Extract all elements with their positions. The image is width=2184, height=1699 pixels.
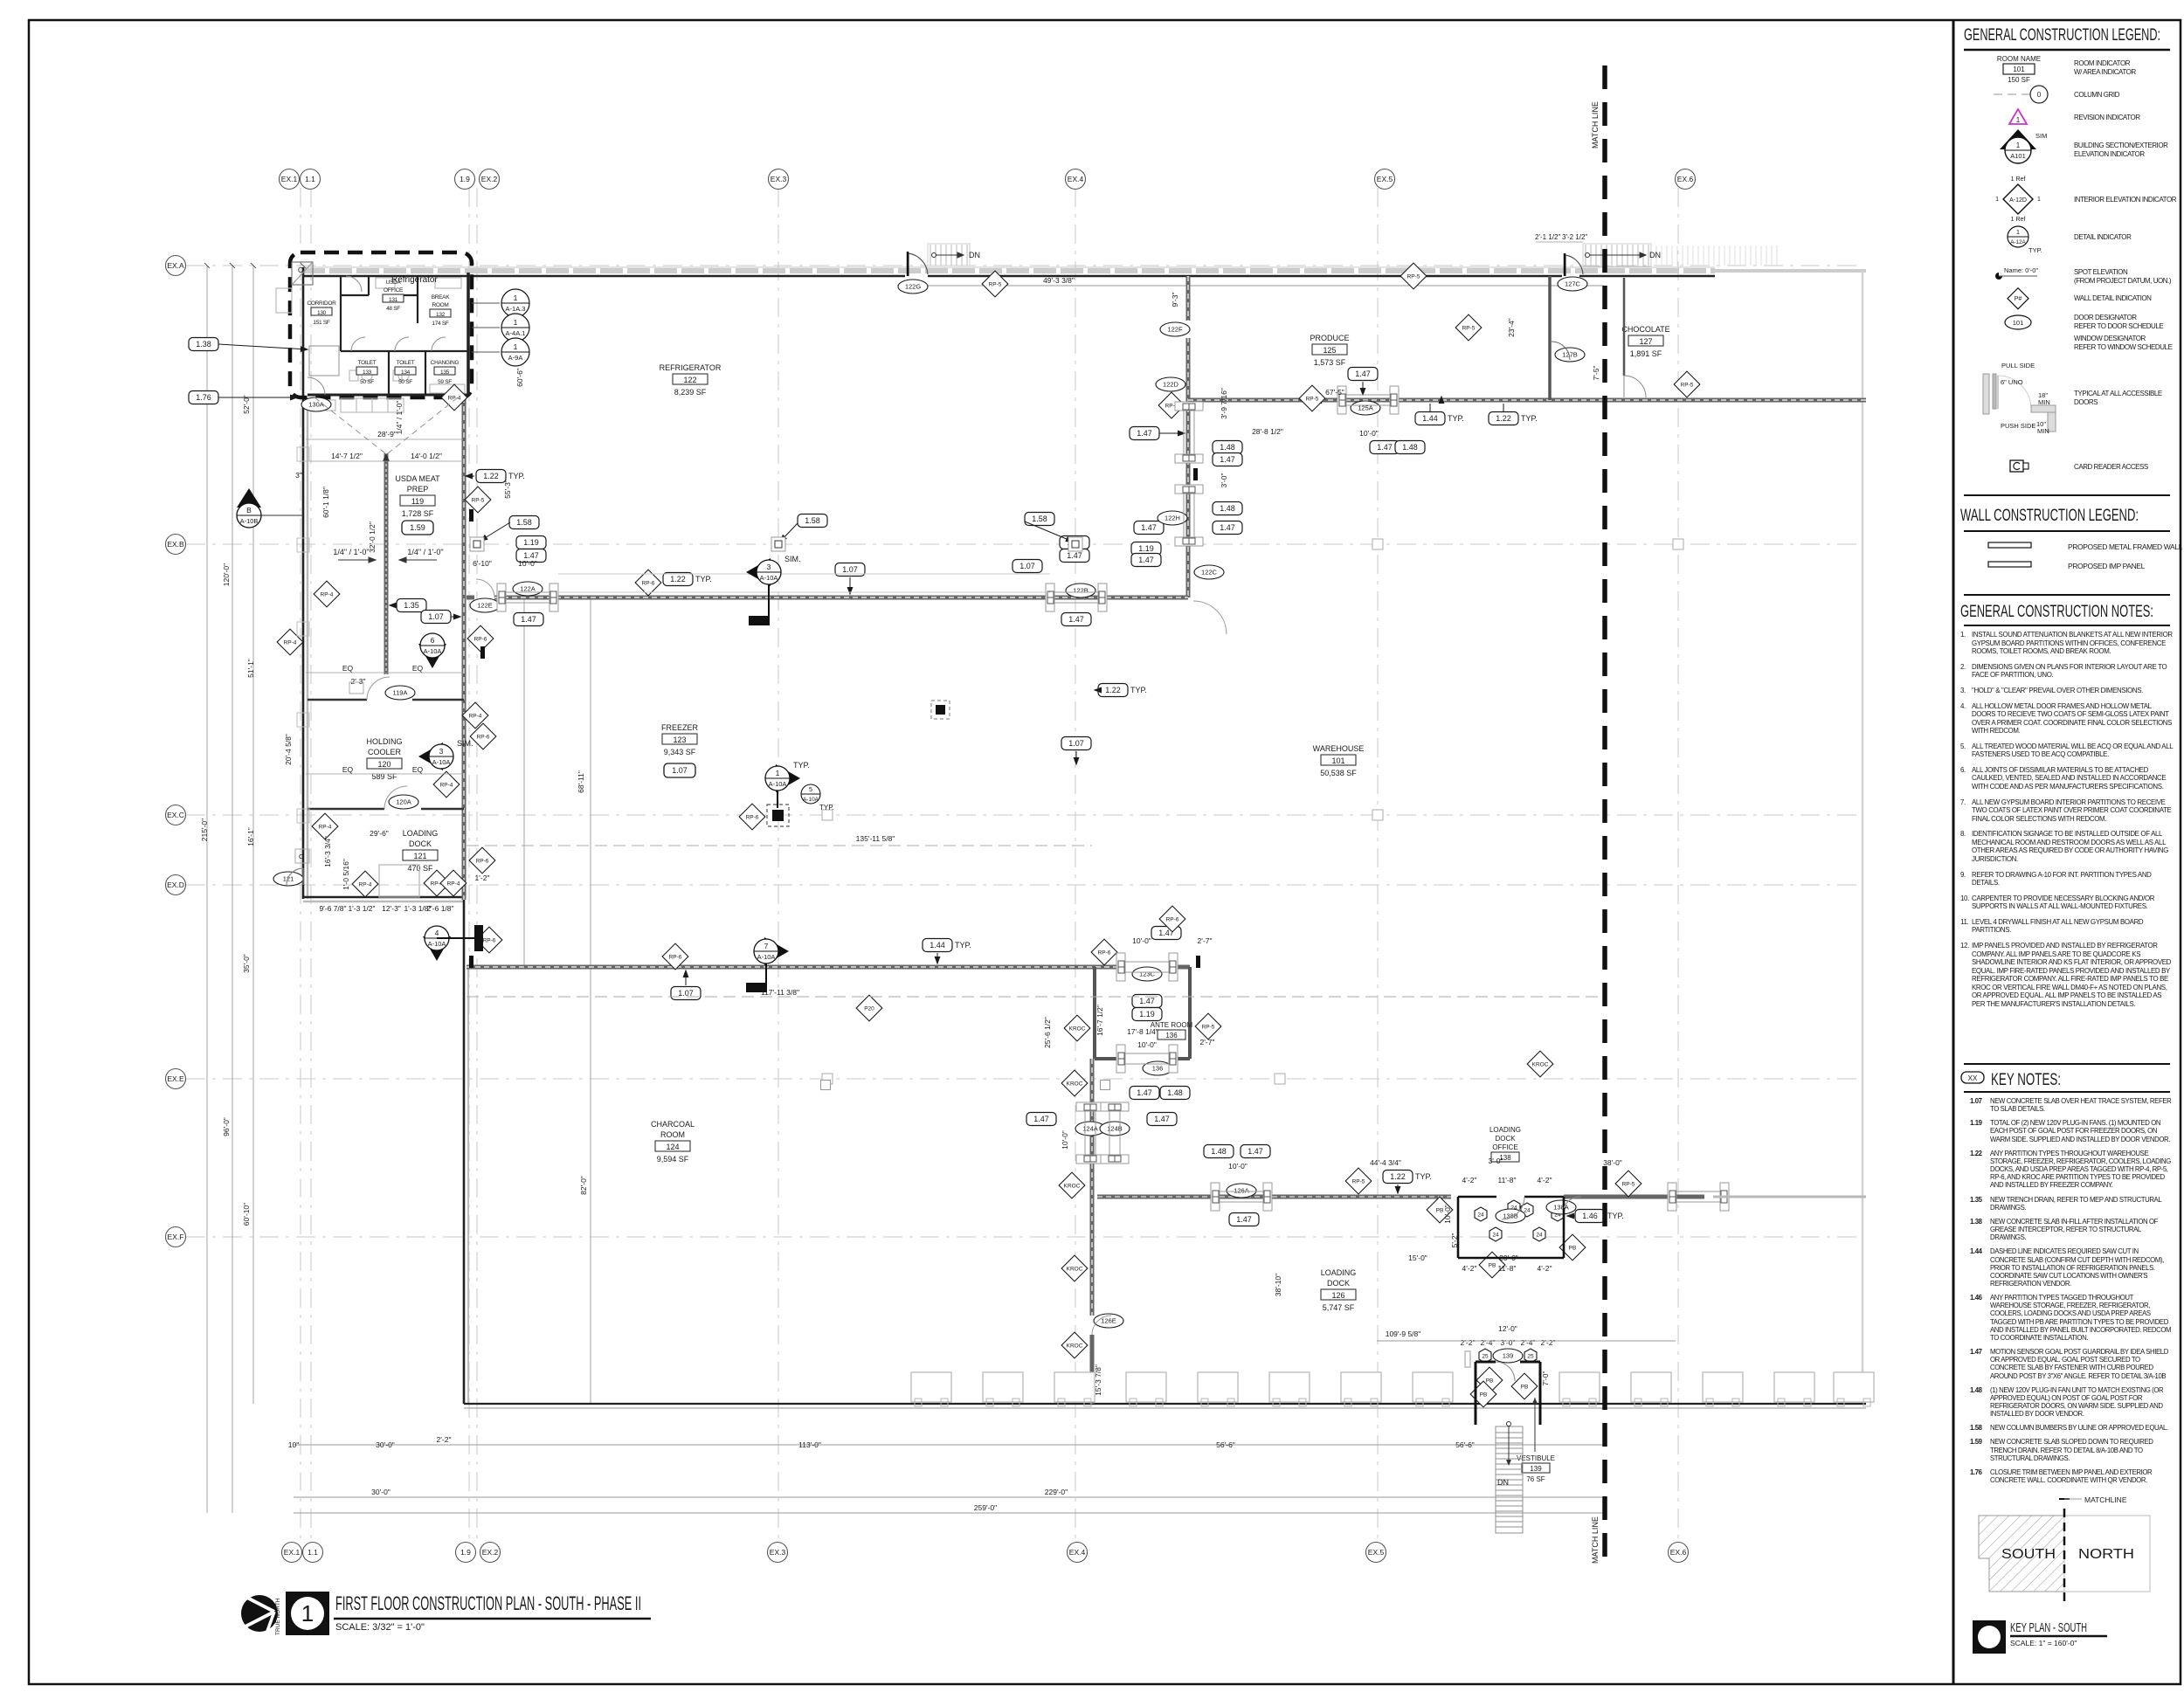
svg-text:RP-6: RP-6	[1166, 916, 1179, 922]
svg-text:PUSH SIDE: PUSH SIDE	[2001, 422, 2035, 430]
title viewport number	[286, 1592, 329, 1635]
svg-text:30'-0": 30'-0"	[376, 1440, 395, 1449]
svg-text:589 SF: 589 SF	[371, 772, 397, 781]
svg-text:1.19: 1.19	[1139, 1010, 1155, 1019]
svg-text:EX.1: EX.1	[284, 1548, 301, 1557]
svg-text:52'-0": 52'-0"	[242, 395, 251, 414]
svg-text:MATCHLINE: MATCHLINE	[2084, 1495, 2127, 1504]
svg-text:125: 125	[1323, 346, 1336, 355]
svg-text:136: 136	[1152, 1065, 1164, 1073]
svg-text:1.07: 1.07	[672, 766, 688, 775]
room charcoal 124	[651, 1120, 695, 1164]
svg-text:122A: 122A	[520, 585, 536, 593]
svg-text:1.07: 1.07	[1019, 562, 1035, 570]
svg-text:1: 1	[514, 294, 518, 302]
svg-text:ROOM INDICATOR: ROOM INDICATOR	[2074, 59, 2131, 67]
svg-text:38'-10": 38'-10"	[1274, 1274, 1282, 1296]
svg-text:1: 1	[514, 318, 518, 327]
key plan matchline	[2063, 1509, 2066, 1605]
svg-text:KROC: KROC	[1532, 1061, 1549, 1067]
svg-text:127C: 127C	[1565, 280, 1581, 288]
svg-text:96'-0": 96'-0"	[222, 1117, 231, 1136]
svg-text:17'-8 1/4": 17'-8 1/4"	[1127, 1027, 1158, 1036]
svg-text:ROOM: ROOM	[432, 302, 448, 308]
svg-text:1.48: 1.48	[1220, 443, 1235, 452]
svg-text:49'-3 3/8": 49'-3 3/8"	[1043, 276, 1075, 285]
key plan north shape	[2064, 1516, 2150, 1592]
svg-text:PULL SIDE: PULL SIDE	[2001, 362, 2035, 369]
horizontal grid EX.A	[186, 265, 1861, 266]
svg-text:6'-10": 6'-10"	[473, 559, 492, 568]
room loading dock 126	[1321, 1268, 1357, 1312]
left exterior wall upper (office to loading dock)	[303, 267, 308, 899]
svg-text:EX.E: EX.E	[167, 1074, 184, 1083]
svg-text:1.48: 1.48	[1220, 504, 1235, 513]
left exterior wall lower (charcoal room)	[463, 897, 466, 1404]
svg-text:TOILET: TOILET	[358, 360, 377, 366]
svg-text:1.58: 1.58	[1032, 515, 1047, 523]
office fixtures	[309, 278, 465, 393]
svg-text:EX.D: EX.D	[167, 881, 184, 889]
room toilet 133	[356, 360, 377, 385]
vertical IMP wall x=531 (meat prep / refrigerator divider)	[462, 397, 467, 900]
svg-text:MIN: MIN	[2037, 427, 2049, 435]
door 127C	[1565, 255, 1583, 276]
door 122C arc	[1193, 601, 1227, 634]
interior elevation indicators	[472, 289, 529, 317]
svg-text:SIM: SIM	[2035, 132, 2047, 140]
wall construction legend	[1964, 494, 2170, 496]
svg-text:1.47: 1.47	[1033, 1115, 1049, 1123]
svg-text:CORRIDOR: CORRIDOR	[308, 300, 337, 307]
svg-text:55'-3": 55'-3"	[503, 480, 512, 499]
svg-text:A-4A.1: A-4A.1	[506, 329, 526, 337]
svg-text:EX.1: EX.1	[281, 175, 298, 183]
vertical dim x=676 (68'-11 / 82'-0)	[590, 597, 591, 1404]
svg-text:GENERAL CONSTRUCTION LEGEND:: GENERAL CONSTRUCTION LEGEND:	[1964, 26, 2160, 45]
svg-text:4: 4	[435, 929, 439, 937]
faded top wall continuation to north	[1715, 269, 1866, 273]
svg-text:6: 6	[431, 636, 435, 645]
svg-text:A-10A: A-10A	[757, 953, 776, 961]
svg-text:121: 121	[413, 852, 426, 860]
svg-text:A-12D: A-12D	[2009, 197, 2027, 204]
svg-text:10'-0": 10'-0"	[1228, 1162, 1248, 1171]
svg-text:29'-6": 29'-6"	[370, 829, 389, 838]
svg-text:44'-4 3/4": 44'-4 3/4"	[1370, 1158, 1401, 1167]
svg-text:A-1A.3: A-1A.3	[506, 305, 526, 313]
svg-text:9,594 SF: 9,594 SF	[657, 1155, 689, 1164]
refrigerator / freezer divider wall y=684	[467, 596, 1188, 600]
column bumper targets	[470, 537, 484, 551]
svg-text:1.47: 1.47	[1377, 443, 1393, 452]
svg-text:119A: 119A	[393, 689, 408, 697]
svg-text:LOADING: LOADING	[403, 829, 439, 838]
svg-text:(FROM PROJECT DATUM, UON.): (FROM PROJECT DATUM, UON.)	[2074, 277, 2172, 285]
svg-text:48 SF: 48 SF	[386, 306, 400, 312]
svg-text:1'-0 5/16": 1'-0 5/16"	[342, 859, 350, 890]
svg-text:COOLER: COOLER	[368, 748, 402, 756]
legend symbol: card reader	[2010, 460, 2028, 472]
svg-text:120A: 120A	[396, 798, 411, 806]
freezer / charcoal divider wall y=1107	[467, 965, 1190, 970]
svg-text:1.47: 1.47	[1236, 1215, 1252, 1224]
toilets top wall	[341, 350, 468, 352]
vertical grid EX.3	[778, 188, 779, 1543]
svg-text:1.47: 1.47	[1220, 523, 1235, 532]
wall type diamonds	[277, 263, 1700, 1407]
svg-text:135'-11 5/8": 135'-11 5/8"	[856, 834, 895, 843]
meat prep slope diagonals	[314, 397, 458, 453]
svg-text:122C: 122C	[1201, 569, 1218, 577]
svg-text:REVISION INDICATOR: REVISION INDICATOR	[2074, 114, 2140, 121]
svg-text:PB: PB	[1569, 1245, 1577, 1251]
svg-text:6" UNO: 6" UNO	[2001, 378, 2023, 386]
svg-text:1: 1	[2037, 197, 2041, 203]
svg-text:C: C	[299, 854, 303, 860]
svg-text:16'-1": 16'-1"	[246, 827, 255, 846]
dock levelers along south wall	[911, 1372, 951, 1406]
svg-text:LOADING: LOADING	[1489, 1126, 1521, 1134]
svg-text:7: 7	[764, 942, 769, 950]
svg-text:50 SF: 50 SF	[360, 379, 374, 385]
room holding cooler 120	[366, 737, 402, 781]
svg-text:1.46: 1.46	[1582, 1212, 1598, 1220]
svg-text:133: 133	[363, 369, 372, 376]
legend symbol: door designator	[2005, 315, 2031, 329]
svg-text:PROPOSED METAL FRAMED WALL: PROPOSED METAL FRAMED WALL	[2068, 542, 2183, 551]
ante room left wall x=1253	[1093, 967, 1096, 1059]
svg-text:RP-5: RP-5	[1202, 1024, 1215, 1030]
svg-text:1.58: 1.58	[516, 518, 532, 527]
svg-text:RP-5: RP-5	[1306, 396, 1319, 402]
svg-text:XX: XX	[1968, 1074, 1978, 1082]
svg-text:USDA MEAT: USDA MEAT	[395, 474, 440, 483]
svg-text:15'-3 7/8": 15'-3 7/8"	[1094, 1364, 1102, 1396]
svg-text:CHARCOAL: CHARCOAL	[651, 1120, 695, 1129]
legend symbol: room indicator	[1997, 55, 2041, 84]
svg-text:1.19: 1.19	[1138, 544, 1154, 553]
room chocolate 127	[1621, 325, 1669, 358]
svg-text:1.07: 1.07	[428, 612, 444, 621]
svg-text:ROOM NAME: ROOM NAME	[1997, 55, 2041, 63]
svg-text:12'-3": 12'-3"	[382, 904, 401, 913]
svg-text:56'-6": 56'-6"	[1216, 1440, 1235, 1449]
toilet divider walls	[388, 351, 390, 395]
vertical grid EX.5	[1377, 188, 1379, 1543]
svg-text:1.35: 1.35	[404, 601, 419, 610]
office 131 walls	[341, 294, 369, 296]
svg-text:2'-7": 2'-7"	[1200, 1038, 1215, 1046]
svg-text:TYP.: TYP.	[793, 761, 810, 770]
svg-text:139: 139	[1530, 1465, 1542, 1473]
svg-text:56'-6": 56'-6"	[1455, 1440, 1475, 1449]
svg-text:RP-6: RP-6	[474, 636, 487, 642]
svg-text:9,343 SF: 9,343 SF	[664, 748, 696, 756]
svg-text:REFER TO DOOR SCHEDULE: REFER TO DOOR SCHEDULE	[2074, 322, 2163, 330]
svg-text:1: 1	[1995, 197, 1999, 203]
svg-text:TYPICAL AT ALL ACCESSIBLE: TYPICAL AT ALL ACCESSIBLE	[2074, 390, 2162, 397]
svg-text:120'-0": 120'-0"	[222, 563, 231, 586]
svg-text:119: 119	[411, 497, 424, 506]
svg-text:4'-2": 4'-2"	[1538, 1264, 1552, 1273]
svg-text:16'-7 1/2": 16'-7 1/2"	[1095, 1005, 1104, 1036]
svg-text:DN: DN	[1497, 1478, 1509, 1487]
svg-text:1,728 SF: 1,728 SF	[402, 509, 434, 518]
vertical IMP wall x=1359 (refrigerator / produce divider)	[1186, 276, 1191, 597]
svg-text:132: 132	[436, 312, 446, 318]
svg-text:10'-0": 10'-0"	[518, 559, 537, 568]
svg-text:1 Ref: 1 Ref	[2011, 217, 2026, 223]
svg-text:1.47: 1.47	[1138, 556, 1154, 564]
wall legend symbol: metal framed wall	[1988, 542, 2031, 548]
horizontal grid EX.F	[186, 1236, 1861, 1238]
loading dock bottom jog wall	[303, 896, 464, 899]
column wraps on left wall	[297, 447, 309, 823]
svg-text:KEY NOTES:: KEY NOTES:	[1991, 1071, 2061, 1089]
svg-text:A-10A: A-10A	[424, 647, 442, 655]
svg-text:RP-5: RP-5	[1407, 273, 1420, 280]
svg-text:1'-3 1/2": 1'-3 1/2"	[348, 904, 375, 913]
svg-text:28'-9": 28'-9"	[377, 430, 397, 439]
saw cut lines	[467, 845, 1092, 846]
svg-text:11'-8": 11'-8"	[1497, 1176, 1516, 1184]
svg-text:1.22: 1.22	[670, 575, 686, 584]
svg-text:DN: DN	[1649, 251, 1661, 259]
svg-text:30'-0": 30'-0"	[371, 1488, 390, 1496]
svg-text:1: 1	[2016, 228, 2020, 236]
svg-text:139: 139	[1503, 1352, 1514, 1360]
svg-text:174 SF: 174 SF	[432, 321, 448, 327]
key notes header	[1964, 1063, 2170, 1065]
small fixture holding cooler	[349, 682, 363, 694]
svg-text:2'-4": 2'-4"	[1521, 1338, 1536, 1347]
svg-text:1.76: 1.76	[196, 393, 211, 402]
lockers row under office	[325, 398, 404, 412]
svg-text:229'-0": 229'-0"	[1045, 1488, 1068, 1496]
svg-text:OFFICE: OFFICE	[384, 287, 404, 294]
vertical grid 1.9	[468, 188, 470, 1543]
stair below vestibule	[1496, 1422, 1523, 1534]
stair top-right	[1583, 244, 1651, 266]
svg-text:76 SF: 76 SF	[1526, 1475, 1545, 1483]
svg-text:2'-1 1/2": 2'-1 1/2"	[1535, 233, 1560, 241]
svg-text:5'-2": 5'-2"	[1450, 1233, 1459, 1248]
svg-text:67'-5": 67'-5"	[1325, 388, 1344, 397]
svg-text:PROPOSED IMP PANEL: PROPOSED IMP PANEL	[2068, 562, 2146, 570]
svg-text:EX.2: EX.2	[481, 175, 498, 183]
svg-text:LOADING: LOADING	[1321, 1268, 1357, 1277]
svg-text:HOLDING: HOLDING	[366, 737, 402, 746]
svg-text:EX.6: EX.6	[1677, 175, 1694, 183]
svg-text:1.22: 1.22	[1105, 686, 1121, 694]
svg-text:RP-5: RP-5	[989, 281, 1002, 287]
key notes text	[1970, 1097, 2174, 1490]
loading dock 126 top wall y=1370	[1097, 1195, 1704, 1199]
svg-text:SPOT ELEVATION: SPOT ELEVATION	[2074, 268, 2128, 276]
svg-text:2'-2": 2'-2"	[437, 1435, 452, 1444]
svg-text:4'-2": 4'-2"	[1538, 1176, 1552, 1184]
svg-text:1.38: 1.38	[196, 340, 211, 349]
svg-text:A-10A: A-10A	[803, 797, 819, 803]
svg-text:CHANGING: CHANGING	[431, 360, 460, 366]
svg-text:0: 0	[2037, 91, 2042, 99]
office block right wall	[467, 273, 470, 395]
svg-text:60'-1 1/8": 60'-1 1/8"	[321, 487, 330, 518]
svg-text:2'-2": 2'-2"	[1541, 1338, 1556, 1347]
svg-text:EX.3: EX.3	[770, 1548, 786, 1557]
svg-text:10'-0": 10'-0"	[1061, 1130, 1069, 1150]
svg-text:1.47: 1.47	[521, 615, 536, 624]
svg-text:1.19: 1.19	[523, 538, 539, 547]
svg-text:RP-5: RP-5	[1622, 1181, 1635, 1187]
svg-text:109'-9 5/8": 109'-9 5/8"	[1386, 1330, 1421, 1338]
svg-text:1: 1	[776, 769, 780, 777]
svg-text:COLUMN GRID: COLUMN GRID	[2074, 91, 2120, 99]
svg-text:10'-0": 10'-0"	[1137, 1040, 1157, 1049]
door tag ovals	[273, 277, 1587, 1363]
general construction notes header	[1964, 594, 2170, 596]
svg-text:A-9A: A-9A	[508, 354, 523, 362]
section markers	[746, 555, 801, 586]
svg-text:WALL CONSTRUCTION LEGEND:: WALL CONSTRUCTION LEGEND:	[1960, 507, 2139, 525]
keynote boxes	[189, 338, 1624, 1226]
svg-text:RP-6: RP-6	[746, 814, 759, 820]
svg-text:10": 10"	[288, 1440, 299, 1449]
legend symbol: detail indicator	[2008, 226, 2042, 254]
svg-text:1.47: 1.47	[1139, 997, 1155, 1005]
svg-text:RP-4: RP-4	[440, 782, 453, 788]
svg-text:122H: 122H	[1165, 515, 1180, 522]
vertical grid EX.2	[476, 188, 478, 1543]
svg-text:TYP.: TYP.	[819, 804, 834, 812]
svg-text:24: 24	[1524, 1208, 1531, 1214]
legend symbol: spot elevation	[1995, 266, 2038, 280]
svg-text:1: 1	[2016, 142, 2021, 149]
svg-text:TYP.: TYP.	[1415, 1172, 1432, 1181]
svg-text:1.48: 1.48	[1402, 443, 1418, 452]
svg-text:1.48: 1.48	[1211, 1147, 1227, 1156]
svg-text:2'-6 1/8": 2'-6 1/8"	[426, 904, 453, 913]
svg-text:9'-6 7/8": 9'-6 7/8"	[319, 904, 346, 913]
svg-text:DOOR DESIGNATOR: DOOR DESIGNATOR	[2074, 314, 2137, 321]
vestibule 139 walls	[1476, 1362, 1540, 1425]
legend symbol: revision indicator	[2009, 109, 2027, 124]
svg-text:3'-0": 3'-0"	[1220, 473, 1228, 488]
svg-text:KEY PLAN - SOUTH: KEY PLAN - SOUTH	[2010, 1620, 2087, 1635]
svg-text:1.47: 1.47	[1355, 369, 1371, 378]
svg-text:C: C	[298, 266, 303, 274]
svg-text:136: 136	[1165, 1032, 1178, 1039]
svg-text:150 SF: 150 SF	[2008, 76, 2030, 84]
svg-text:3'-9 7/16": 3'-9 7/16"	[1220, 388, 1228, 419]
svg-text:117'-11 3/8": 117'-11 3/8"	[761, 988, 799, 997]
legend symbol: wall detail	[2008, 288, 2028, 309]
horizontal grid EX.D	[186, 884, 1861, 886]
svg-text:135: 135	[440, 369, 450, 376]
svg-text:113'-0": 113'-0"	[798, 1440, 821, 1449]
dashed scope boundary	[290, 252, 472, 397]
svg-text:2'-2": 2'-2"	[1461, 1338, 1476, 1347]
svg-text:4'-2": 4'-2"	[1462, 1176, 1477, 1184]
grid bubbles top	[280, 169, 1696, 190]
svg-text:OFFICE: OFFICE	[1492, 1143, 1517, 1151]
vertical grid EX.4	[1075, 188, 1076, 1543]
svg-text:38'-0": 38'-0"	[1603, 1158, 1622, 1167]
svg-text:124: 124	[666, 1143, 679, 1151]
svg-text:BUILDING SECTION/EXTERIOR: BUILDING SECTION/EXTERIOR	[2074, 142, 2168, 149]
horizontal grid EX.E	[186, 1078, 1861, 1080]
general construction notes text	[1960, 631, 2175, 1015]
svg-text:RP-6: RP-6	[477, 734, 490, 740]
holding cooler bottom wall 120A	[308, 808, 384, 811]
svg-text:1.47: 1.47	[1154, 1115, 1170, 1123]
svg-text:TYP.: TYP.	[508, 472, 525, 480]
svg-text:DOCK: DOCK	[1495, 1135, 1516, 1143]
svg-text:1.9: 1.9	[460, 175, 470, 183]
svg-text:50,538 SF: 50,538 SF	[1320, 769, 1357, 777]
svg-text:7'-0": 7'-0"	[1541, 1371, 1550, 1386]
top dim line 49'-3 3/8"	[928, 285, 1604, 287]
svg-text:PB: PB	[1480, 1392, 1488, 1398]
key plan title logo	[1973, 1620, 2006, 1654]
svg-text:Refrigerator: Refrigerator	[391, 275, 438, 285]
svg-text:RP-6: RP-6	[476, 858, 489, 864]
svg-text:EX.F: EX.F	[168, 1233, 184, 1241]
svg-text:1.47: 1.47	[1248, 1147, 1263, 1156]
svg-text:CARD READER ACCESS: CARD READER ACCESS	[2074, 463, 2148, 471]
svg-text:122F: 122F	[1167, 326, 1183, 334]
legend symbol: accessible door diagram	[1983, 362, 2056, 435]
svg-text:RP-4: RP-4	[469, 713, 482, 719]
holding cooler top wall 119A	[308, 699, 367, 701]
svg-text:REFER TO WINDOW SCHEDULE: REFER TO WINDOW SCHEDULE	[2074, 343, 2173, 351]
svg-text:TOILET: TOILET	[397, 360, 415, 366]
svg-text:RP-4: RP-4	[321, 591, 334, 597]
svg-text:215'-0": 215'-0"	[200, 818, 209, 841]
svg-text:A-12A: A-12A	[2010, 239, 2026, 245]
svg-text:TRUE NORTH: TRUE NORTH	[275, 1598, 281, 1635]
faded right (north part) wall	[1862, 271, 1864, 1404]
horizontal grid EX.B	[186, 543, 1861, 545]
svg-text:TYP.: TYP.	[1607, 1212, 1624, 1220]
svg-text:DOCK: DOCK	[1327, 1279, 1350, 1288]
svg-text:1.07: 1.07	[1068, 739, 1084, 748]
room freezer 123	[661, 723, 699, 777]
svg-text:P20: P20	[864, 1005, 874, 1012]
svg-text:68'-11": 68'-11"	[577, 770, 585, 793]
svg-text:P#: P#	[2015, 296, 2022, 302]
svg-text:SCALE: 3/32" = 1'-0": SCALE: 3/32" = 1'-0"	[335, 1622, 425, 1633]
svg-text:23'-4": 23'-4"	[1507, 318, 1516, 337]
svg-text:123: 123	[673, 736, 686, 744]
top exterior wall band	[302, 267, 1715, 276]
room warehouse 101	[1313, 744, 1365, 777]
svg-text:1.1: 1.1	[305, 175, 315, 183]
svg-text:CHOCOLATE: CHOCOLATE	[1621, 325, 1669, 334]
svg-text:59 SF: 59 SF	[438, 379, 452, 385]
room usda office 131	[383, 280, 404, 312]
svg-text:TYP.: TYP.	[1521, 414, 1538, 423]
svg-text:1.47: 1.47	[1141, 523, 1157, 532]
keynote leader arrows	[218, 344, 1575, 1219]
svg-text:REFRIGERATOR: REFRIGERATOR	[660, 363, 722, 372]
goal post assemblies	[497, 584, 558, 611]
svg-text:RP-4: RP-4	[284, 639, 297, 646]
svg-text:1.48: 1.48	[1167, 1088, 1183, 1097]
svg-text:1.22: 1.22	[1390, 1172, 1406, 1181]
svg-text:28'-8 1/2": 28'-8 1/2"	[1252, 427, 1283, 436]
